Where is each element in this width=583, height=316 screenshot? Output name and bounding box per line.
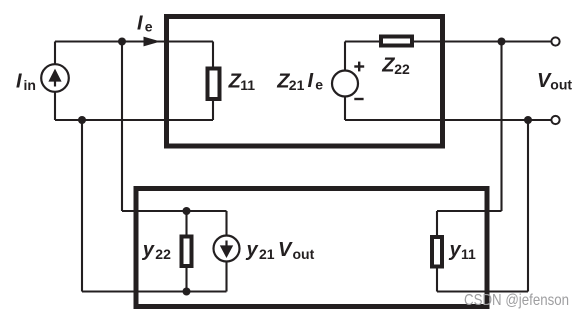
svg-text:e: e (145, 18, 153, 34)
svg-text:out: out (293, 246, 315, 262)
svg-text:y: y (246, 239, 259, 261)
svg-text:y: y (449, 239, 462, 261)
svg-text:11: 11 (240, 77, 255, 93)
svg-text:I: I (308, 70, 314, 92)
svg-text:21: 21 (289, 77, 305, 93)
svg-text:I: I (16, 71, 22, 93)
svg-text:I: I (137, 12, 143, 34)
svg-text:out: out (550, 77, 572, 93)
svg-text:21: 21 (259, 246, 275, 262)
svg-text:V: V (278, 239, 293, 261)
svg-text:in: in (24, 77, 36, 93)
svg-text:y: y (142, 239, 155, 261)
svg-text:Z: Z (381, 55, 395, 77)
svg-text:11: 11 (461, 246, 476, 262)
svg-text:e: e (315, 77, 323, 93)
svg-text:22: 22 (155, 246, 171, 262)
svg-text:22: 22 (394, 61, 410, 77)
svg-text:CSDN @jefenson: CSDN @jefenson (464, 292, 569, 309)
